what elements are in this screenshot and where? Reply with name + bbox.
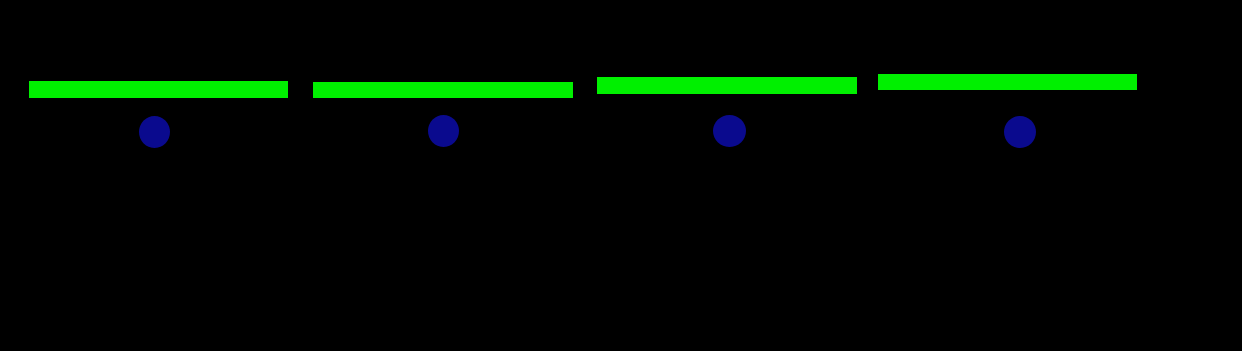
resistor R2 (green bar segment 2) — [313, 82, 573, 98]
node D (junction dot 4) — [1004, 116, 1036, 148]
node C (junction dot 3) — [713, 115, 746, 147]
resistor R4 (green bar segment 4) — [878, 74, 1137, 90]
node B (junction dot 2) — [428, 115, 459, 147]
resistor R1 (green bar segment 1) — [29, 81, 288, 98]
resistor R3 (green bar segment 3) — [597, 77, 857, 94]
node A (junction dot 1) — [139, 116, 170, 148]
